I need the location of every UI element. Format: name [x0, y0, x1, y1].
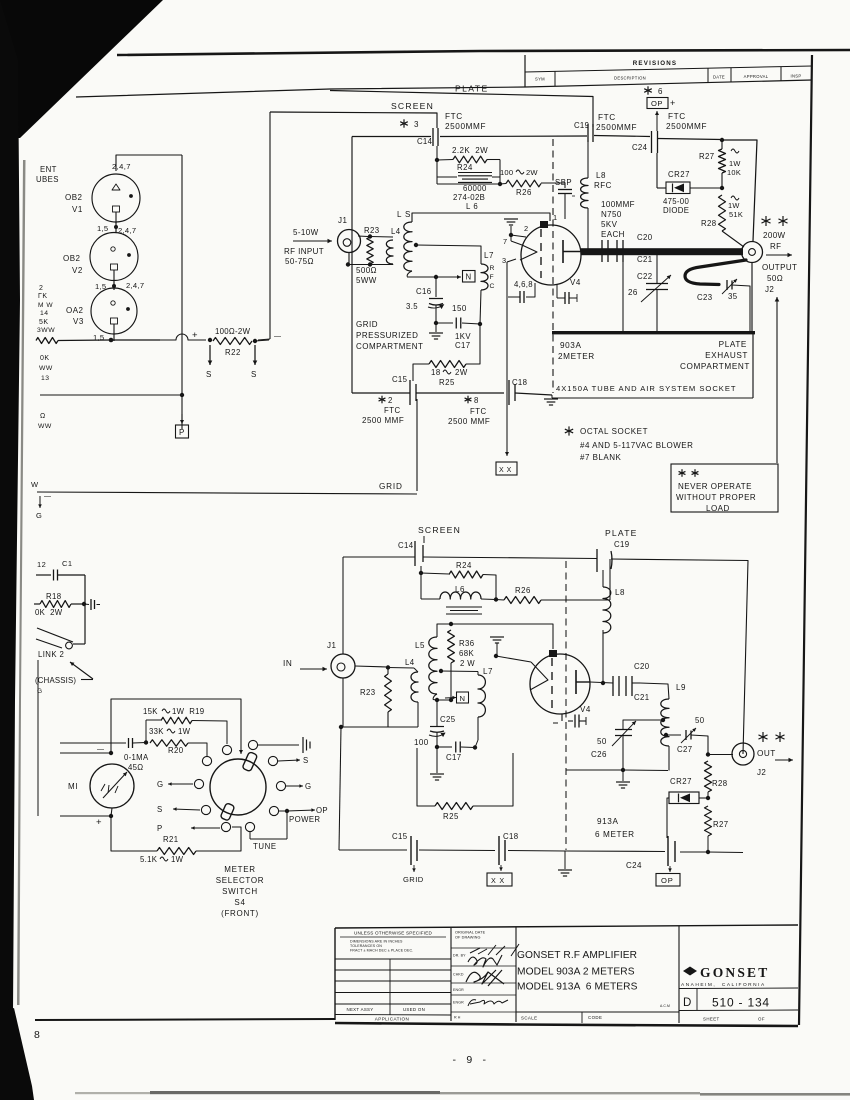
svg-text:R25: R25 [443, 812, 459, 821]
svg-text:D: D [683, 997, 691, 1009]
svg-text:R20: R20 [168, 746, 184, 755]
label R36 68K 2W [459, 639, 475, 668]
svg-text:6 METER: 6 METER [595, 830, 635, 839]
feedthrough capacitor C18 (903A) [509, 380, 515, 405]
label 4,6,8 [514, 280, 533, 289]
svg-text:J2: J2 [757, 768, 766, 777]
arrow into N box (903A) [436, 275, 461, 279]
output hairpin inductor [685, 260, 746, 285]
bottom wall (913A) segments [339, 850, 743, 853]
svg-text:OUT: OUT [757, 749, 776, 758]
svg-text:APPROVAL: APPROVAL [744, 74, 769, 79]
svg-text:PLATE: PLATE [719, 340, 747, 349]
svg-text:NEXT ASSY: NEXT ASSY [346, 1007, 373, 1012]
label C15 (903A) [392, 375, 408, 384]
label L8 (913A) [615, 588, 625, 597]
grid compartment left wall [351, 137, 353, 394]
svg-text:50: 50 [695, 716, 705, 725]
label GRID PRESSURIZED COMPARTMENT [356, 320, 423, 351]
label 15K 1W R19 [143, 707, 204, 716]
label 1KV C17 [455, 332, 471, 350]
svg-text:15K: 15K [143, 707, 158, 716]
trimmer C23 [722, 279, 750, 332]
label R23 (903A) [364, 226, 380, 235]
label 500 5WW (R23 value) [356, 266, 377, 285]
resistor R18 [34, 601, 86, 608]
svg-text:2500MMF: 2500MMF [445, 122, 486, 131]
svg-text:- 9 -: - 9 - [452, 1054, 487, 1066]
svg-text:C21: C21 [637, 255, 653, 264]
svg-text:GONSET R.F AMPLIFIER: GONSET R.F AMPLIFIER [517, 950, 637, 961]
label FTC 2500MMF (C24) [666, 112, 707, 131]
svg-text:L6: L6 [455, 585, 465, 594]
node R22 right [253, 339, 257, 343]
label 12 / capacitor C1 [37, 559, 73, 569]
svg-text:+: + [670, 98, 676, 108]
svg-text:2METER: 2METER [558, 352, 595, 361]
svg-text:18: 18 [431, 368, 441, 377]
svg-text:2: 2 [39, 285, 43, 292]
L5 tap to L7 (913A) [439, 669, 478, 675]
resistor R28 (913A) [705, 761, 712, 800]
label 1,5 / 2,4,7 (V3) [95, 281, 144, 291]
wire C16 bottom to ground [434, 305, 438, 325]
svg-text:SYM: SYM [535, 77, 545, 82]
svg-text:IN: IN [283, 659, 292, 668]
svg-text:4X150A TUBE AND AIR SYSTEM SOC: 4X150A TUBE AND AIR SYSTEM SOCKET [556, 384, 737, 393]
label FTC 2500MMF (C14) [445, 112, 486, 131]
svg-text:L5: L5 [415, 641, 425, 650]
svg-text:FTC: FTC [445, 112, 463, 121]
inductor L4 (913A) [411, 668, 418, 702]
svg-text:CR27: CR27 [670, 777, 692, 786]
svg-text:R36: R36 [459, 639, 475, 648]
wire grid entry (913A) [496, 656, 548, 690]
svg-text:NEVER OPERATE: NEVER OPERATE [678, 482, 752, 491]
svg-text:C20: C20 [634, 662, 650, 671]
svg-text:45Ω: 45Ω [128, 763, 143, 772]
svg-text:DIODE: DIODE [663, 206, 689, 215]
svg-text:R23: R23 [364, 226, 380, 235]
chassis arrow [70, 662, 93, 679]
blocking capacitors C20/C21 (903A) [602, 233, 653, 332]
label METER SELECTOR SWITCH S4 (FRONT) [216, 865, 265, 918]
label 50 C26 [591, 737, 607, 759]
connector J2 (913A) [732, 743, 754, 765]
label R21 [163, 835, 179, 844]
svg-text:(FRONT): (FRONT) [221, 909, 259, 918]
svg-text:S: S [303, 756, 309, 765]
wire C16 top [435, 277, 437, 297]
trimmer C27 [664, 728, 710, 757]
ground below bottom wall [558, 851, 572, 876]
resistor R25 (913A) [417, 748, 513, 810]
svg-text:1W R19: 1W R19 [172, 707, 204, 716]
left margin partial resistor [36, 338, 58, 344]
svg-text:C19: C19 [574, 121, 589, 130]
svg-text:ENT: ENT [40, 165, 57, 174]
svg-text:100MMF: 100MMF [601, 200, 635, 209]
svg-text:2500MMF: 2500MMF [596, 123, 637, 132]
svg-text:ORIGINAL DATE: ORIGINAL DATE [455, 931, 486, 935]
switch contact S right [268, 756, 308, 766]
grid rail (913A) [437, 622, 553, 649]
compartment bottom wall left [352, 392, 504, 394]
svg-text:SCREEN: SCREEN [391, 101, 434, 111]
svg-text:J2: J2 [765, 285, 774, 294]
revisions table [525, 55, 812, 87]
svg-text:C26: C26 [591, 750, 607, 759]
wire L5 bottom to N [407, 275, 438, 279]
svg-text:8: 8 [34, 1029, 40, 1041]
resistor R36 (913A) [448, 630, 455, 702]
feedthrough capacitor C19 (903A) [574, 121, 593, 142]
label IN + arrow [283, 659, 327, 671]
left feed wires to meter circuit [38, 660, 60, 816]
svg-text:2500MMF: 2500MMF [666, 122, 707, 131]
scan artifact: page top edge line [117, 50, 850, 55]
wire V1 top to P-rail [116, 155, 182, 171]
label R25 (913A) [443, 812, 459, 821]
label SBP + suppressor capacitor [541, 178, 575, 219]
label 10K 2W [35, 608, 63, 617]
svg-text:COMPARTMENT: COMPARTMENT [356, 342, 423, 351]
title block: drawn/checked signature column [451, 931, 519, 1020]
svg-text:WITHOUT PROPER: WITHOUT PROPER [676, 493, 756, 502]
tube V4 (903A) [520, 225, 581, 285]
label 3.5 [406, 302, 418, 311]
svg-text:L9: L9 [676, 683, 686, 692]
svg-text:X X: X X [491, 876, 505, 885]
resistor R24 (903A) [437, 156, 500, 184]
node R22 left [208, 338, 212, 342]
svg-text:G: G [305, 782, 312, 791]
resistor R20 [150, 740, 207, 756]
L9 tap to C26 [623, 718, 665, 729]
svg-text:C14: C14 [398, 541, 414, 550]
label 50 C27 [677, 716, 705, 754]
svg-text:DATE: DATE [713, 75, 725, 80]
label R28 (913A) [712, 779, 728, 788]
wire hump over P-rail [160, 334, 206, 340]
svg-text:PLATE: PLATE [605, 528, 638, 538]
capacitor C17 (903A) [436, 318, 482, 329]
svg-text:OCTAL SOCKET: OCTAL SOCKET [580, 427, 648, 436]
warning arrow up to J2 [775, 297, 780, 463]
svg-text:COMPARTMENT: COMPARTMENT [680, 362, 750, 371]
svg-text:5.1K: 5.1K [140, 855, 158, 864]
tube V4 pin1 connection (square) [540, 221, 548, 228]
label C15 (913A) [392, 832, 408, 841]
svg-text:+: + [96, 817, 102, 828]
label 1,5 / 2,4,7 (V2) [97, 224, 136, 235]
label C19 (913A) [614, 540, 630, 549]
svg-text:903A: 903A [560, 341, 582, 350]
feedthrough capacitor C14 (913A) [415, 541, 423, 566]
label 33K 1W [149, 727, 191, 736]
svg-text:R26: R26 [515, 586, 531, 595]
svg-text:2,4,7: 2,4,7 [126, 281, 144, 290]
svg-text:DESCRIPTION: DESCRIPTION [614, 76, 646, 81]
svg-text:C1: C1 [62, 559, 73, 568]
svg-text:OF: OF [758, 1017, 765, 1022]
svg-text:60000: 60000 [463, 184, 487, 193]
svg-text:C18: C18 [512, 378, 527, 387]
svg-text:FTC: FTC [598, 113, 616, 122]
svg-text:MODEL 913A 6 METERS: MODEL 913A 6 METERS [517, 982, 638, 993]
svg-text:C25: C25 [440, 715, 456, 724]
label R27 (903A) [699, 149, 741, 177]
label C23 35 [697, 292, 738, 302]
title block: drawing title text [516, 950, 679, 1023]
label minus (R22 right) [274, 333, 282, 340]
label R26 (903A) [516, 188, 532, 197]
feedthrough capacitor C18 (913A) [499, 836, 505, 865]
svg-text:POWER: POWER [289, 815, 320, 824]
label + (R22) [192, 330, 198, 341]
page number [452, 1054, 487, 1066]
svg-text:5K: 5K [39, 319, 49, 326]
svg-text:P: P [179, 428, 185, 437]
svg-text:WW: WW [38, 423, 52, 430]
wire V2-V3 [112, 282, 116, 290]
tube V4 (913A) [530, 654, 590, 714]
label L7 (913A) [483, 667, 493, 676]
label J1 (913A) [327, 641, 337, 650]
scan artifact: black bottom-left corner [0, 1008, 34, 1100]
wire V1-V2 [114, 222, 118, 233]
svg-text:1,5: 1,5 [97, 224, 108, 233]
wire: second left bus [40, 393, 184, 397]
connector J1 (913A) [331, 654, 355, 678]
svg-text:13: 13 [41, 375, 50, 382]
label C24 (913A) [626, 861, 642, 870]
grid return wire (GRID) [37, 492, 417, 494]
svg-text:500Ω: 500Ω [356, 266, 377, 275]
ground below C26 [616, 770, 630, 788]
wire C20 to L9 [640, 683, 669, 699]
resistor R19 [146, 717, 227, 744]
compartment wall (913A) left [343, 556, 415, 558]
label pin 1 [553, 213, 558, 222]
label R28 (903A) [701, 196, 743, 228]
svg-text:WW: WW [39, 365, 53, 372]
svg-text:OB2: OB2 [65, 193, 83, 202]
svg-text:R24: R24 [456, 561, 472, 570]
svg-text:0-1MA: 0-1MA [124, 753, 149, 762]
label TUNE [253, 842, 277, 851]
svg-text:150: 150 [452, 304, 467, 313]
svg-text:V4: V4 [580, 705, 591, 714]
svg-text:EACH: EACH [601, 230, 625, 239]
label W (left margin) [31, 480, 39, 489]
svg-text:METER: METER [224, 865, 256, 874]
svg-text:OP: OP [661, 876, 674, 885]
svg-text:510 - 134: 510 - 134 [712, 996, 770, 1010]
meter loop bottom wire [111, 816, 157, 851]
svg-text:35: 35 [728, 292, 738, 301]
svg-text:1W: 1W [729, 159, 741, 168]
svg-text:L7: L7 [484, 251, 494, 260]
screen stub (913A) [423, 536, 425, 543]
svg-text:OUTPUT: OUTPUT [762, 263, 797, 272]
svg-text:CHKD: CHKD [453, 973, 464, 977]
label L4 (913A) [405, 658, 415, 667]
scan artifact: black corner triangle top-left [0, 0, 163, 138]
XX box (903A) [496, 462, 517, 475]
label PLATE (top schematic) [455, 84, 489, 94]
svg-text:—: — [97, 746, 105, 753]
variable capacitor C22 [641, 250, 671, 332]
wire C14 to R24 node [420, 566, 422, 573]
wire L7 bottom (913A) [475, 717, 478, 748]
svg-text:L7: L7 [483, 667, 493, 676]
node L5 bottom (913A) [433, 698, 451, 702]
svg-text:SCALE: SCALE [521, 1016, 537, 1021]
arrow to OP box (913A) [668, 866, 672, 872]
wire J1 bottom bus [346, 253, 393, 267]
svg-text:J1: J1 [338, 216, 348, 225]
svg-text:1W: 1W [171, 855, 184, 864]
drawing frame bottom border [35, 1019, 335, 1020]
label L7 R F C (903A) [484, 251, 495, 290]
wire meter minus to left [60, 746, 113, 755]
svg-text:GRID: GRID [379, 482, 403, 491]
label R24 (913A) [456, 561, 472, 570]
label 100 2W (R26) [500, 168, 538, 177]
inductor L4 (903A) [386, 240, 393, 264]
compartment right wall (903A) [752, 262, 753, 398]
label C17 (913A) [446, 753, 462, 762]
grid compartment wall top (screen bus) [352, 135, 587, 138]
P-rail vertical wire [181, 155, 183, 429]
label 5-10W RF INPUT 50-75 [284, 228, 324, 266]
wire pin7 [511, 235, 522, 245]
switch contact G left [157, 779, 204, 789]
svg-text:33K: 33K [149, 727, 164, 736]
svg-text:3WW: 3WW [37, 327, 55, 334]
label G below chassis [37, 688, 43, 695]
svg-text:INSP: INSP [791, 74, 802, 79]
ground below C16 [429, 323, 443, 339]
label V1 [65, 193, 83, 214]
svg-text:PLATE: PLATE [455, 84, 489, 94]
svg-text:50-75Ω: 50-75Ω [285, 257, 314, 266]
svg-text:8: 8 [474, 396, 479, 405]
title block outline [335, 925, 798, 1026]
svg-text:2 W: 2 W [460, 659, 475, 668]
svg-text:2.2K 2W: 2.2K 2W [452, 146, 488, 155]
label C18 (913A) [503, 832, 519, 841]
blocking capacitors C20/C21 (913A) [613, 662, 650, 702]
N box (913A) [457, 692, 469, 703]
svg-text:N: N [466, 273, 472, 282]
wire R25 left node [417, 747, 437, 748]
label C25 [440, 715, 456, 724]
svg-text:R18: R18 [46, 592, 62, 601]
svg-text:GRID: GRID [356, 320, 378, 329]
arrow to G (left margin) [36, 496, 42, 520]
svg-text:FRACT ± MACH DEC ± PLACE DEC.: FRACT ± MACH DEC ± PLACE DEC. [350, 949, 413, 953]
svg-text:100: 100 [500, 168, 513, 177]
svg-text:274-02B: 274-02B [453, 193, 485, 202]
screen bus C19 to C24 [594, 136, 650, 137]
capacitor at R18 node [84, 599, 100, 610]
plate wire (top schematic) [330, 91, 593, 128]
svg-text:OA2: OA2 [66, 306, 84, 315]
L5 tap to L7 [414, 243, 481, 264]
regulator tube V2 [90, 233, 138, 283]
cathode capacitor right (903A) [557, 284, 577, 304]
inductor L5 (903A) [404, 222, 412, 277]
svg-text:0K 2W: 0K 2W [35, 608, 63, 617]
inductor L6 (903A) [437, 160, 502, 186]
svg-text:G: G [157, 780, 164, 789]
label: regulator tubes heading [36, 165, 59, 184]
tube V4 pin1 square (913A) [549, 650, 557, 657]
svg-text:C24: C24 [632, 143, 648, 152]
svg-text:L4: L4 [391, 227, 401, 236]
svg-text:—: — [274, 333, 282, 340]
label L9 [676, 683, 686, 692]
svg-text:RF INPUT: RF INPUT [284, 247, 324, 256]
feedthrough capacitor C15 (913A) [411, 836, 417, 865]
resistor R21 [157, 827, 241, 855]
label V2 [63, 254, 83, 275]
switch contact ground [248, 737, 310, 753]
svg-text:R26: R26 [516, 188, 532, 197]
svg-text:100Ω-2W: 100Ω-2W [215, 327, 251, 336]
wire J1 riser (913A) [342, 557, 344, 654]
svg-text:S4: S4 [234, 898, 245, 907]
wire meter bottom [60, 808, 113, 828]
title block: application column [335, 931, 451, 1022]
switch contact P left [157, 822, 231, 833]
svg-text:C: C [490, 283, 495, 290]
XX box (913A) [487, 873, 512, 886]
label R22 [225, 348, 241, 357]
label R24 (903A) [457, 163, 473, 172]
svg-text:R: R [490, 265, 495, 272]
svg-text:—: — [44, 493, 52, 500]
svg-text:0K: 0K [40, 355, 50, 362]
label 1,5 (V3 bottom) [93, 333, 104, 342]
svg-text:FTC: FTC [384, 406, 401, 415]
label CR27 (913A) [670, 777, 692, 786]
svg-text:+: + [192, 330, 198, 341]
resistor R23 (913A) [385, 668, 392, 728]
label V4 (913A) [580, 705, 591, 714]
connector J2 (903A) [742, 242, 763, 263]
svg-text:G: G [36, 511, 42, 520]
svg-text:TOLERANCES ON: TOLERANCES ON [350, 944, 382, 948]
S arrow left of R22 [206, 345, 212, 379]
compartment floor thick (903A) [552, 331, 755, 334]
diode CR27 (913A) [667, 792, 708, 838]
svg-text:R28: R28 [701, 219, 717, 228]
label R18 [46, 592, 62, 601]
svg-text:A.C.M: A.C.M [660, 1004, 670, 1008]
svg-text:J1: J1 [327, 641, 337, 650]
wire: regulator cathode bus [58, 338, 160, 343]
label PLATE EXHAUST COMPARTMENT [680, 340, 750, 371]
ground below C17 node [430, 747, 444, 780]
label L4 (903A) [391, 227, 401, 236]
svg-text:OP: OP [651, 99, 663, 108]
svg-text:C21: C21 [634, 693, 650, 702]
svg-text:5KV: 5KV [601, 220, 618, 229]
svg-text:C24: C24 [626, 861, 642, 870]
